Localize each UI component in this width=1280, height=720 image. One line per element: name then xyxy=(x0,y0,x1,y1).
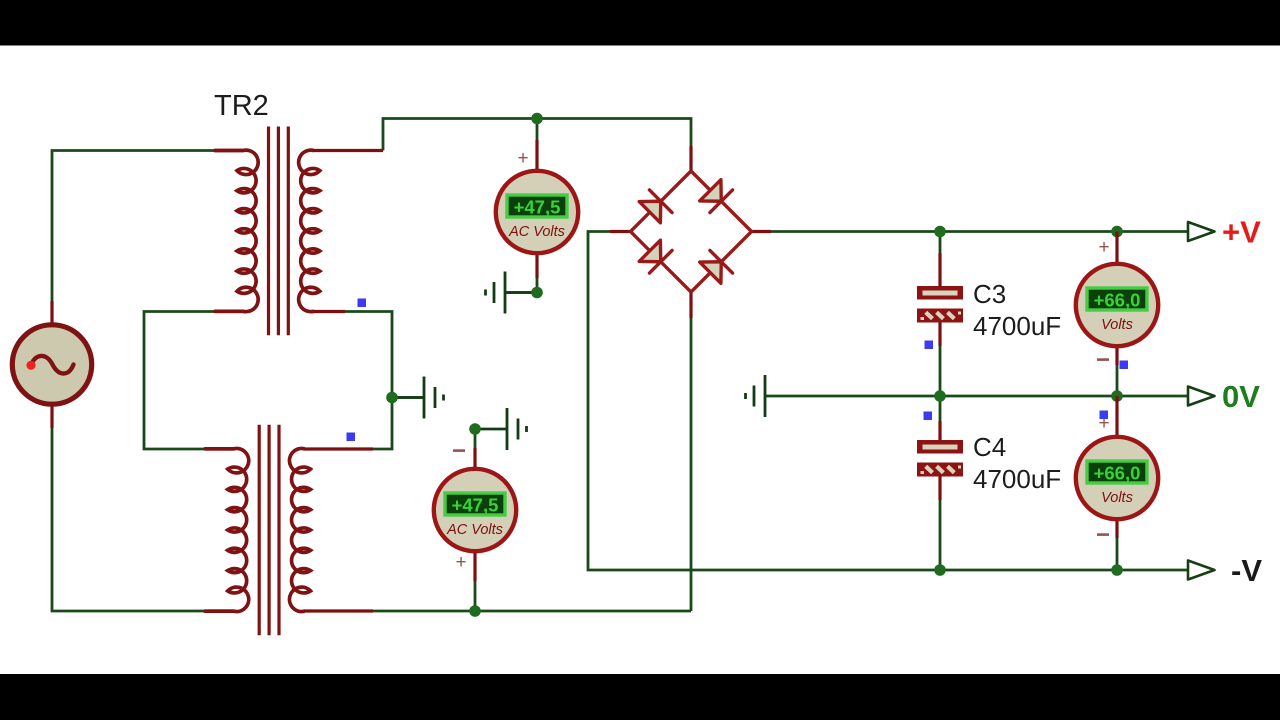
wire: bridge negative to -V rail xyxy=(588,232,1188,571)
junction: center tap / ground xyxy=(386,392,398,404)
pin: U3 plus xyxy=(1115,232,1118,267)
pin: C3 bottom xyxy=(938,321,941,346)
selection handle xyxy=(358,299,367,308)
svg-text:+47,5: +47,5 xyxy=(452,495,499,516)
wire: bottom secondary to bridge bottom xyxy=(373,610,691,613)
pin: bridge negative xyxy=(610,230,631,233)
svg-text:-V: -V xyxy=(1231,553,1262,588)
svg-text:+66,0: +66,0 xyxy=(1094,463,1141,484)
transformer TR2 upper half: core laminations xyxy=(267,127,270,336)
junction: -V rail / C4 xyxy=(934,564,946,576)
diode D4 (bridge bottom-right, cathode right vertex) xyxy=(699,250,733,284)
pin: U1 minus xyxy=(535,252,538,278)
wire: primary series link xyxy=(144,312,215,450)
svg-text:Volts: Volts xyxy=(1101,317,1133,333)
svg-text:Volts: Volts xyxy=(1101,490,1133,506)
svg-text:C4: C4 xyxy=(973,432,1006,462)
pin: TR2 lower secondary top xyxy=(304,447,373,450)
junction: top rail / U1 xyxy=(531,113,543,125)
wire: voltmeter U2 top stub xyxy=(474,429,477,448)
wire: top secondary to bridge top xyxy=(383,119,691,151)
junction: +V rail / C3 xyxy=(934,226,946,238)
wire: voltmeter U2 bottom stub xyxy=(474,580,477,611)
pin: U1 plus xyxy=(535,140,538,172)
wire: +V rail to C3 top xyxy=(939,232,942,269)
capacitor C3 xyxy=(917,286,963,323)
selection handle xyxy=(924,412,933,421)
polarity - (U4) xyxy=(1097,533,1109,536)
svg-text:TR2: TR2 xyxy=(214,90,269,122)
wire: 0V rail to C4 top xyxy=(939,396,942,432)
polarity - (U3) xyxy=(1097,358,1109,361)
wire: secondary center tap link xyxy=(345,312,392,450)
transformer TR2 lower half: core laminations xyxy=(258,425,261,635)
pin: TR2 lower secondary bottom xyxy=(304,609,373,612)
svg-text:4700uF: 4700uF xyxy=(973,311,1061,341)
selection handle xyxy=(1100,411,1109,420)
transformer TR2 upper half: primary winding xyxy=(215,150,258,312)
wire: 0V rail xyxy=(765,395,1188,398)
wire: center tap to ground stub xyxy=(392,396,424,399)
transformer TR2 lower half: primary winding xyxy=(205,448,249,611)
voltmeter U1 (AC Volts) xyxy=(496,171,578,253)
voltmeter U3 (Volts) xyxy=(1076,264,1158,346)
pin: U4 plus xyxy=(1115,396,1118,439)
wire: bridge positive to +V rail xyxy=(770,230,1188,233)
junction: -V rail / U4 xyxy=(1111,564,1123,576)
svg-text:C3: C3 xyxy=(973,279,1006,309)
pin: U2 plus xyxy=(473,550,476,581)
capacitor C4 xyxy=(917,440,963,477)
diode D1 (bridge left-top, anode left vertex) xyxy=(638,190,672,224)
pin: bridge top AC xyxy=(689,146,692,172)
svg-text:+66,0: +66,0 xyxy=(1094,290,1141,311)
pin: U3 minus xyxy=(1115,344,1118,365)
pin: TR2 upper secondary bottom xyxy=(313,310,345,313)
svg-text:4700uF: 4700uF xyxy=(973,464,1061,494)
selection handle xyxy=(1120,361,1129,370)
pin: TR2 lower primary top xyxy=(205,447,234,450)
AC source V1 xyxy=(12,325,91,404)
wire: bridge bottom drop xyxy=(690,317,693,611)
pin: U2 minus xyxy=(473,448,476,470)
pin: TR2 upper primary top xyxy=(215,149,244,152)
diode D2 (bridge top-right, cathode right vertex) xyxy=(699,179,733,213)
terminal arrow 0V xyxy=(1188,387,1215,406)
pin: U4 minus xyxy=(1115,517,1118,538)
terminal arrow -V xyxy=(1188,561,1215,580)
voltmeter U4 (Volts) xyxy=(1076,437,1158,519)
bridge rectifier BR1: diamond frame xyxy=(631,171,752,292)
pin: TR2 lower primary bottom xyxy=(205,609,234,612)
selection handle xyxy=(347,433,356,442)
ground (center tap) xyxy=(392,377,444,419)
wire: voltmeter U4 bottom stub xyxy=(1116,537,1119,570)
pin: C3 top xyxy=(938,253,941,287)
pin: C4 bottom xyxy=(938,475,941,500)
pin: AC source bottom xyxy=(50,406,53,428)
svg-text:+V: +V xyxy=(1222,215,1261,250)
wire: voltmeter U1 bottom to ground xyxy=(505,277,537,293)
svg-text:+: + xyxy=(1098,237,1109,258)
junction: U2 minus / ground xyxy=(469,423,481,435)
svg-text:0V: 0V xyxy=(1222,379,1260,414)
polarity - (U2) xyxy=(453,449,465,452)
transformer TR2 upper half: secondary winding xyxy=(299,150,320,312)
svg-text:AC Volts: AC Volts xyxy=(446,522,503,538)
svg-text:+47,5: +47,5 xyxy=(514,197,561,218)
svg-text:+: + xyxy=(517,148,528,169)
terminal arrow +V xyxy=(1188,222,1215,241)
junction: 0V rail / C3-C4 xyxy=(934,390,946,402)
pin: bridge bottom AC xyxy=(689,292,692,318)
junction: bottom rail / U2 xyxy=(469,605,481,617)
wire: AC source top to primary top xyxy=(52,151,215,305)
pin: AC source top xyxy=(50,301,53,324)
wire: voltmeter U3 bottom stub xyxy=(1116,364,1119,396)
junction: U1 minus / ground xyxy=(531,287,543,299)
wire: AC source bottom to primary bottom xyxy=(52,428,205,611)
diode D3 (bridge left-bottom, anode left vertex) xyxy=(638,239,672,273)
junction: +V rail / U3 xyxy=(1111,226,1123,238)
wire: C4 bottom to -V rail xyxy=(939,499,942,570)
selection handle xyxy=(925,341,934,350)
transformer TR2 lower half: secondary winding xyxy=(289,448,310,611)
svg-text:AC Volts: AC Volts xyxy=(508,224,565,240)
pin: bridge positive xyxy=(750,230,771,233)
pin: C4 top xyxy=(938,421,941,441)
svg-text:+: + xyxy=(455,552,466,573)
wire: C3 bottom to 0V rail xyxy=(939,345,942,396)
junction: 0V rail / U3-U4 xyxy=(1111,390,1123,402)
pin: TR2 upper secondary top xyxy=(313,149,383,152)
ground (AC voltmeter U1) xyxy=(486,272,538,314)
wire: voltmeter U1 top stub xyxy=(536,119,539,142)
ground (0V rail) xyxy=(746,375,766,417)
ground (AC voltmeter U2) xyxy=(475,408,527,450)
pin: TR2 upper primary bottom xyxy=(215,310,244,313)
voltmeter U2 (AC Volts) xyxy=(434,469,516,551)
